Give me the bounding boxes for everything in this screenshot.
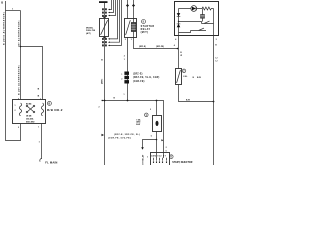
wire middle (w/ alternator) vertical to R/B top bbox=[20, 11, 22, 100]
alternator warning box (top right) bbox=[175, 2, 219, 36]
svg-text:(M/T): (M/T) bbox=[102, 79, 104, 84]
svg-text:B: B bbox=[114, 98, 116, 100]
connector code blocks on wire A bbox=[124, 72, 129, 75]
wire branch to down arrow bbox=[143, 140, 157, 148]
node junction at y46 bbox=[20, 46, 22, 48]
wire bus down to AM2 fuse bbox=[156, 101, 158, 116]
svg-text:1J: 1J bbox=[215, 58, 217, 60]
wire B from top into coil bbox=[133, 0, 135, 23]
svg-text:B: B bbox=[49, 102, 51, 105]
wire long2 elbow arrow into row5 bbox=[110, 0, 120, 42]
wire mid branch bbox=[179, 22, 202, 24]
wire left B (w/o alternator) vertical with U-turn to R/B pin bbox=[6, 1, 21, 141]
node junction starter wire bbox=[177, 48, 179, 50]
ignition switch box bbox=[151, 153, 170, 167]
arrowhead down bbox=[141, 147, 144, 150]
svg-text:1: 1 bbox=[131, 39, 132, 41]
svg-text:2: 2 bbox=[121, 78, 122, 80]
svg-text:AM2 IG2 ST: AM2 IG2 ST bbox=[151, 154, 166, 157]
fusible link FL on wire 177 bbox=[176, 69, 182, 85]
svg-text:1: 1 bbox=[40, 98, 41, 100]
wire stub2 with arrow into row2 bbox=[110, 0, 114, 13]
joint connector pair row3 bbox=[102, 15, 104, 17]
svg-text:B (W/ ALTERNATOR): B (W/ ALTERNATOR) bbox=[17, 65, 20, 95]
svg-text:R/B NO.2: R/B NO.2 bbox=[47, 108, 63, 112]
svg-text:(2RZ-E, 3RZ-FE, 5L): (2RZ-E, 3RZ-FE, 5L) bbox=[114, 134, 140, 136]
svg-text:(1GR-FE): (1GR-FE) bbox=[133, 81, 145, 83]
wire right pin of alt box down to bottom bbox=[213, 36, 215, 166]
svg-text:1: 1 bbox=[121, 74, 122, 76]
svg-text:(2RZ-E): (2RZ-E) bbox=[133, 73, 143, 75]
relay contact 1 bbox=[202, 21, 214, 23]
svg-text:(2RZ-E): (2RZ-E) bbox=[139, 46, 146, 48]
svg-text:1: 1 bbox=[124, 59, 125, 61]
pin nub above box1 bbox=[103, 17, 105, 18]
svg-text:B: B bbox=[193, 77, 195, 79]
svg-text:1: 1 bbox=[124, 94, 125, 96]
wire long3 elbow arrow into row6 bbox=[110, 0, 122, 45]
wire branch at y46 to x42 bbox=[21, 47, 43, 100]
svg-text:START, INJECTOR: START, INJECTOR bbox=[172, 161, 192, 164]
svg-text:FL MAIN: FL MAIN bbox=[45, 160, 57, 164]
svg-text:2: 2 bbox=[18, 98, 19, 100]
svg-text:B: B bbox=[101, 60, 103, 62]
svg-text:(3RZ-FE, 5L-E, 1GR): (3RZ-FE, 5L-E, 1GR) bbox=[133, 77, 160, 79]
diode 2 pointing up bbox=[177, 24, 181, 27]
svg-text:6: 6 bbox=[166, 151, 167, 153]
joint connector pair row1 bbox=[102, 8, 104, 10]
svg-text:B-W: B-W bbox=[186, 99, 190, 101]
svg-text:B: B bbox=[215, 45, 217, 47]
svg-text:30A 40A: 30A 40A bbox=[26, 117, 34, 120]
node dot mid branch bbox=[178, 21, 179, 22]
node junction center wire and bus bbox=[104, 100, 106, 102]
circled ref 2 beside FL bbox=[182, 69, 186, 73]
node dot bus left end bbox=[102, 100, 103, 101]
svg-text:2: 2 bbox=[15, 110, 16, 112]
svg-text:2: 2 bbox=[99, 107, 100, 109]
charge lamp diode triangle bbox=[192, 7, 196, 11]
wire right edge inside box bbox=[213, 9, 215, 36]
svg-text:2.0L: 2.0L bbox=[183, 76, 188, 78]
resistor block hatched under zigzag bbox=[201, 15, 205, 19]
svg-text:1: 1 bbox=[15, 105, 16, 107]
wire fuse bottom to ignition switch bbox=[156, 132, 158, 153]
node junction branch to arrow bbox=[156, 139, 158, 141]
fusible link box2 bbox=[125, 19, 137, 38]
wire left internal vertical bbox=[178, 9, 180, 36]
starter relay coil hatched element in box2 bbox=[131, 23, 135, 32]
relay contact 2 bbox=[191, 28, 207, 30]
crossover symbol center (in R/B) bbox=[27, 106, 34, 112]
connector hook to FL MAIN bbox=[40, 158, 42, 161]
fusible link diagonal box1 bbox=[101, 20, 108, 35]
wire bottom internal bbox=[179, 31, 191, 33]
connector bar top of center wire bbox=[99, 1, 108, 3]
svg-text:B: B bbox=[38, 96, 40, 98]
svg-text:(M/T): (M/T) bbox=[141, 31, 149, 34]
circuit breaker squiggle left (in R/B) bbox=[19, 103, 21, 116]
pin nub under box1 bbox=[103, 37, 105, 38]
wire stubs into ignition switch bbox=[157, 153, 164, 159]
svg-text:4: 4 bbox=[174, 44, 175, 47]
svg-text:1: 1 bbox=[147, 157, 148, 159]
joint connector pair row5 bbox=[102, 41, 104, 43]
wire below FL to right bus bbox=[179, 85, 214, 102]
svg-text:2: 2 bbox=[166, 147, 167, 149]
wire B from coil down and right to alternator wire bbox=[134, 32, 178, 49]
resistor zigzag bbox=[202, 7, 214, 10]
svg-text:2: 2 bbox=[18, 127, 19, 129]
joint connector pair row2 bbox=[102, 12, 104, 14]
wire from R/B pin1 bottom down to FL MAIN bbox=[41, 124, 43, 160]
svg-text:AM1 AM2: AM1 AM2 bbox=[26, 120, 34, 123]
wire A from top through box2 to bus bbox=[127, 0, 129, 101]
circled ref 6 beside ignition switch bbox=[170, 155, 174, 159]
wire stub1 with arrow into row1 bbox=[110, 0, 112, 10]
svg-text:2: 2 bbox=[125, 39, 126, 41]
svg-text:3: 3 bbox=[216, 39, 217, 41]
svg-text:B-W: B-W bbox=[197, 77, 201, 79]
svg-text:(W/ ALTERNATOR): (W/ ALTERNATOR) bbox=[17, 20, 20, 47]
svg-text:4: 4 bbox=[175, 38, 176, 41]
svg-text:2: 2 bbox=[150, 109, 151, 111]
arrow mark on center wire bottom bbox=[102, 134, 105, 136]
svg-text:B (W/O ALTERNATOR): B (W/O ALTERNATOR) bbox=[2, 12, 5, 45]
svg-text:B: B bbox=[38, 89, 40, 91]
svg-text:B: B bbox=[1, 0, 3, 4]
fusible link box1 bbox=[100, 19, 109, 37]
svg-text:1: 1 bbox=[39, 142, 41, 144]
svg-text:(A/T): (A/T) bbox=[86, 32, 91, 35]
diamond mark on wire B bbox=[132, 4, 135, 7]
fuse element oval bbox=[156, 121, 159, 126]
left bus bbox=[102, 101, 164, 153]
svg-text:(1GR-FE, 5VZ-FE): (1GR-FE, 5VZ-FE) bbox=[108, 138, 131, 140]
diamond mark on wire A bbox=[126, 4, 129, 7]
AM2 fuse box bbox=[153, 116, 162, 132]
svg-text:B4 B4: B4 B4 bbox=[26, 102, 32, 105]
node junction wire A and bus bbox=[127, 100, 129, 102]
svg-text:B: B bbox=[180, 52, 182, 54]
svg-text:3B 4B: 3B 4B bbox=[26, 114, 32, 117]
joint connector pair row6 bbox=[102, 44, 104, 46]
relay block R/B NO.2 box bbox=[13, 100, 46, 124]
circled ref 1 beside fuse bbox=[145, 113, 149, 117]
svg-text:6: 6 bbox=[151, 135, 152, 137]
node junction right bus to wire213 bbox=[213, 101, 215, 103]
charge lamp circle bbox=[191, 6, 197, 12]
diode 1 pointing down bbox=[177, 13, 181, 16]
node junction bus to fuse bbox=[156, 100, 158, 102]
svg-text:2: 2 bbox=[124, 56, 125, 58]
svg-text:1: 1 bbox=[38, 127, 39, 129]
joint connector pair row4 bbox=[102, 38, 104, 40]
circled ref 5 starter relay bbox=[142, 20, 146, 24]
svg-text:ST RELAY: ST RELAY bbox=[142, 154, 145, 165]
svg-text:1J: 1J bbox=[215, 61, 217, 63]
ignition switch contacts bbox=[154, 158, 167, 161]
wire left pin of alt box down to FL bbox=[178, 36, 180, 69]
svg-text:(3RZ-FE): (3RZ-FE) bbox=[156, 46, 164, 48]
wire center main vertical bbox=[104, 3, 106, 165]
circled ref B beside R/B bbox=[47, 101, 51, 105]
wire stub3 with arrow into row3 bbox=[110, 0, 116, 16]
arrow mark on ign wire2 bbox=[161, 139, 163, 141]
wire long1 elbow arrow into row4 bbox=[110, 0, 118, 39]
wire branch top horizontal bbox=[6, 10, 21, 12]
lamp wire inside box bbox=[179, 8, 203, 10]
svg-text:B-W: B-W bbox=[136, 124, 140, 126]
fusible link diagonal box2 bbox=[126, 20, 131, 35]
circuit breaker squiggle right (in R/B) bbox=[41, 103, 43, 116]
svg-text:W: W bbox=[180, 55, 182, 57]
